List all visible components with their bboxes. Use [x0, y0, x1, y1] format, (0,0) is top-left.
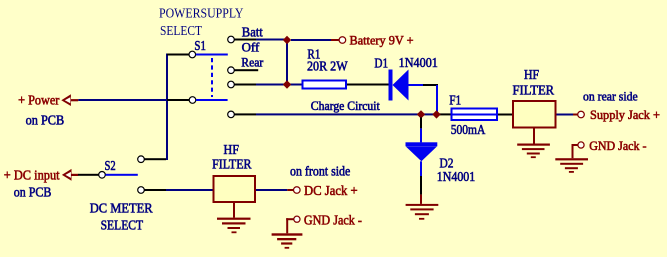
switch S1 pole2 circle	[189, 97, 196, 104]
svg-text:Charge Circuit: Charge Circuit	[311, 98, 380, 113]
wire left filter out	[256, 189, 287, 191]
wire F1 to filter	[498, 114, 512, 116]
wire filter out to supply jack	[557, 114, 574, 116]
wire D1 drop vertical	[436, 85, 438, 113]
diode D1 cathode bar	[389, 70, 393, 101]
switch S1 contact Batt circle	[228, 36, 235, 43]
switch S1 linkage dashed	[211, 58, 213, 97]
junction diamond D	[432, 110, 440, 118]
svg-text:FILTER: FILTER	[513, 84, 555, 99]
filter box left	[214, 176, 256, 202]
label POWERSUPPLY SELECT	[159, 7, 244, 39]
svg-text:S1: S1	[194, 39, 206, 54]
diode D2 cathode bar	[406, 142, 438, 146]
terminal circle Battery	[339, 37, 346, 44]
wire +DC to S2 pole	[78, 174, 99, 176]
terminal circle GND Jack front	[294, 216, 300, 222]
svg-text:SELECT: SELECT	[101, 218, 144, 233]
wire Batt contact stub	[234, 39, 256, 41]
wire S1 pole1 stub	[167, 54, 189, 56]
svg-text:POWERSUPPLY: POWERSUPPLY	[159, 7, 244, 22]
junction diamond B	[283, 80, 291, 88]
wire Rear contact stub dead end	[234, 69, 258, 71]
switch S2 pole circle	[99, 172, 106, 179]
switch S2 contact lower circle	[138, 187, 145, 194]
svg-text:500mA: 500mA	[451, 123, 486, 138]
switch S1 contact charge circle	[228, 111, 235, 118]
terminal circle Supply Jack	[578, 111, 585, 118]
svg-text:FILTER: FILTER	[212, 158, 252, 173]
svg-text:DC Jack +: DC Jack +	[304, 184, 358, 199]
svg-text:Rear: Rear	[241, 55, 264, 70]
wire charge circuit net	[256, 113, 439, 115]
diode D2 triangle	[406, 147, 437, 162]
ground G1 below right filter	[517, 129, 550, 159]
svg-text:+ Power: + Power	[18, 92, 60, 107]
svg-text:on PCB: on PCB	[26, 114, 65, 129]
ground G4 below left filter	[217, 203, 251, 233]
svg-text:GND Jack -: GND Jack -	[304, 213, 362, 228]
wire +Power net horizontal	[78, 99, 168, 101]
svg-text:D2: D2	[440, 156, 454, 171]
port arrow +DC input	[62, 169, 78, 181]
fuse F1 body	[452, 109, 498, 121]
wire S2 lower contact stub	[145, 189, 167, 191]
svg-text:Batt: Batt	[242, 25, 263, 40]
wire junction to battery terminal	[291, 39, 331, 41]
terminal circle DC Jack	[294, 187, 301, 194]
fuse F1 middle line	[451, 114, 499, 116]
switch S1 contact pole2-batt circle	[228, 81, 235, 88]
svg-text:1N4001: 1N4001	[399, 56, 438, 71]
ground G2 GND jack rear	[555, 144, 588, 173]
svg-text:Supply Jack +: Supply Jack +	[590, 107, 660, 122]
switch S1 contact Rear circle	[228, 67, 235, 74]
filter box right	[513, 101, 556, 128]
wire S2 to left filter	[166, 189, 213, 191]
svg-text:DC METER: DC METER	[90, 201, 153, 216]
svg-text:D1: D1	[374, 56, 388, 71]
wire R1 right to D1	[347, 84, 389, 86]
port arrow +Power	[61, 94, 78, 106]
wire D2 top stub	[420, 117, 422, 128]
wire S1 pole2 stub	[167, 99, 189, 101]
switch S2 blade	[106, 174, 138, 176]
svg-text:HF: HF	[224, 143, 240, 158]
switch S2 contact upper circle	[138, 156, 145, 163]
svg-text:HF: HF	[524, 68, 539, 83]
svg-text:on rear side: on rear side	[583, 88, 638, 103]
ground G5 GND jack front	[272, 218, 303, 249]
svg-text:SELECT: SELECT	[160, 24, 202, 39]
svg-text:+ DC input: + DC input	[4, 169, 60, 184]
svg-text:20R 2W: 20R 2W	[307, 60, 348, 75]
diode D1 triangle	[393, 70, 409, 101]
svg-text:GND Jack -: GND Jack -	[589, 138, 646, 153]
wire charge contact stub	[234, 113, 256, 115]
wire S1 common vertical feed	[166, 54, 168, 161]
wire D2 bottom	[420, 161, 422, 176]
ground G3 below D2	[406, 195, 439, 220]
junction diamond C	[417, 110, 425, 118]
wire pole2 top contact to junction	[256, 84, 302, 86]
resistor R1 body	[303, 81, 347, 89]
wire D1 anode	[409, 84, 424, 86]
switch S1 blade2	[196, 99, 228, 101]
svg-text:F1: F1	[449, 94, 461, 109]
svg-text:Battery 9V +: Battery 9V +	[350, 33, 414, 48]
wire Batt contact to junction	[256, 39, 287, 41]
terminal circle GND Jack rear	[578, 142, 584, 148]
wire S2 upper contact stub	[145, 158, 167, 160]
switch S1 pole1 circle	[189, 51, 196, 58]
junction diamond A	[283, 36, 291, 44]
svg-text:on front side: on front side	[290, 164, 350, 179]
svg-text:Off: Off	[242, 40, 260, 55]
svg-text:on PCB: on PCB	[14, 185, 52, 200]
svg-text:1N4001: 1N4001	[437, 170, 475, 185]
wire pole2 top contact stub	[234, 84, 256, 86]
svg-text:S2: S2	[105, 159, 116, 174]
switch S1 blade1	[196, 54, 228, 56]
wire battery junction vertical	[286, 40, 288, 85]
